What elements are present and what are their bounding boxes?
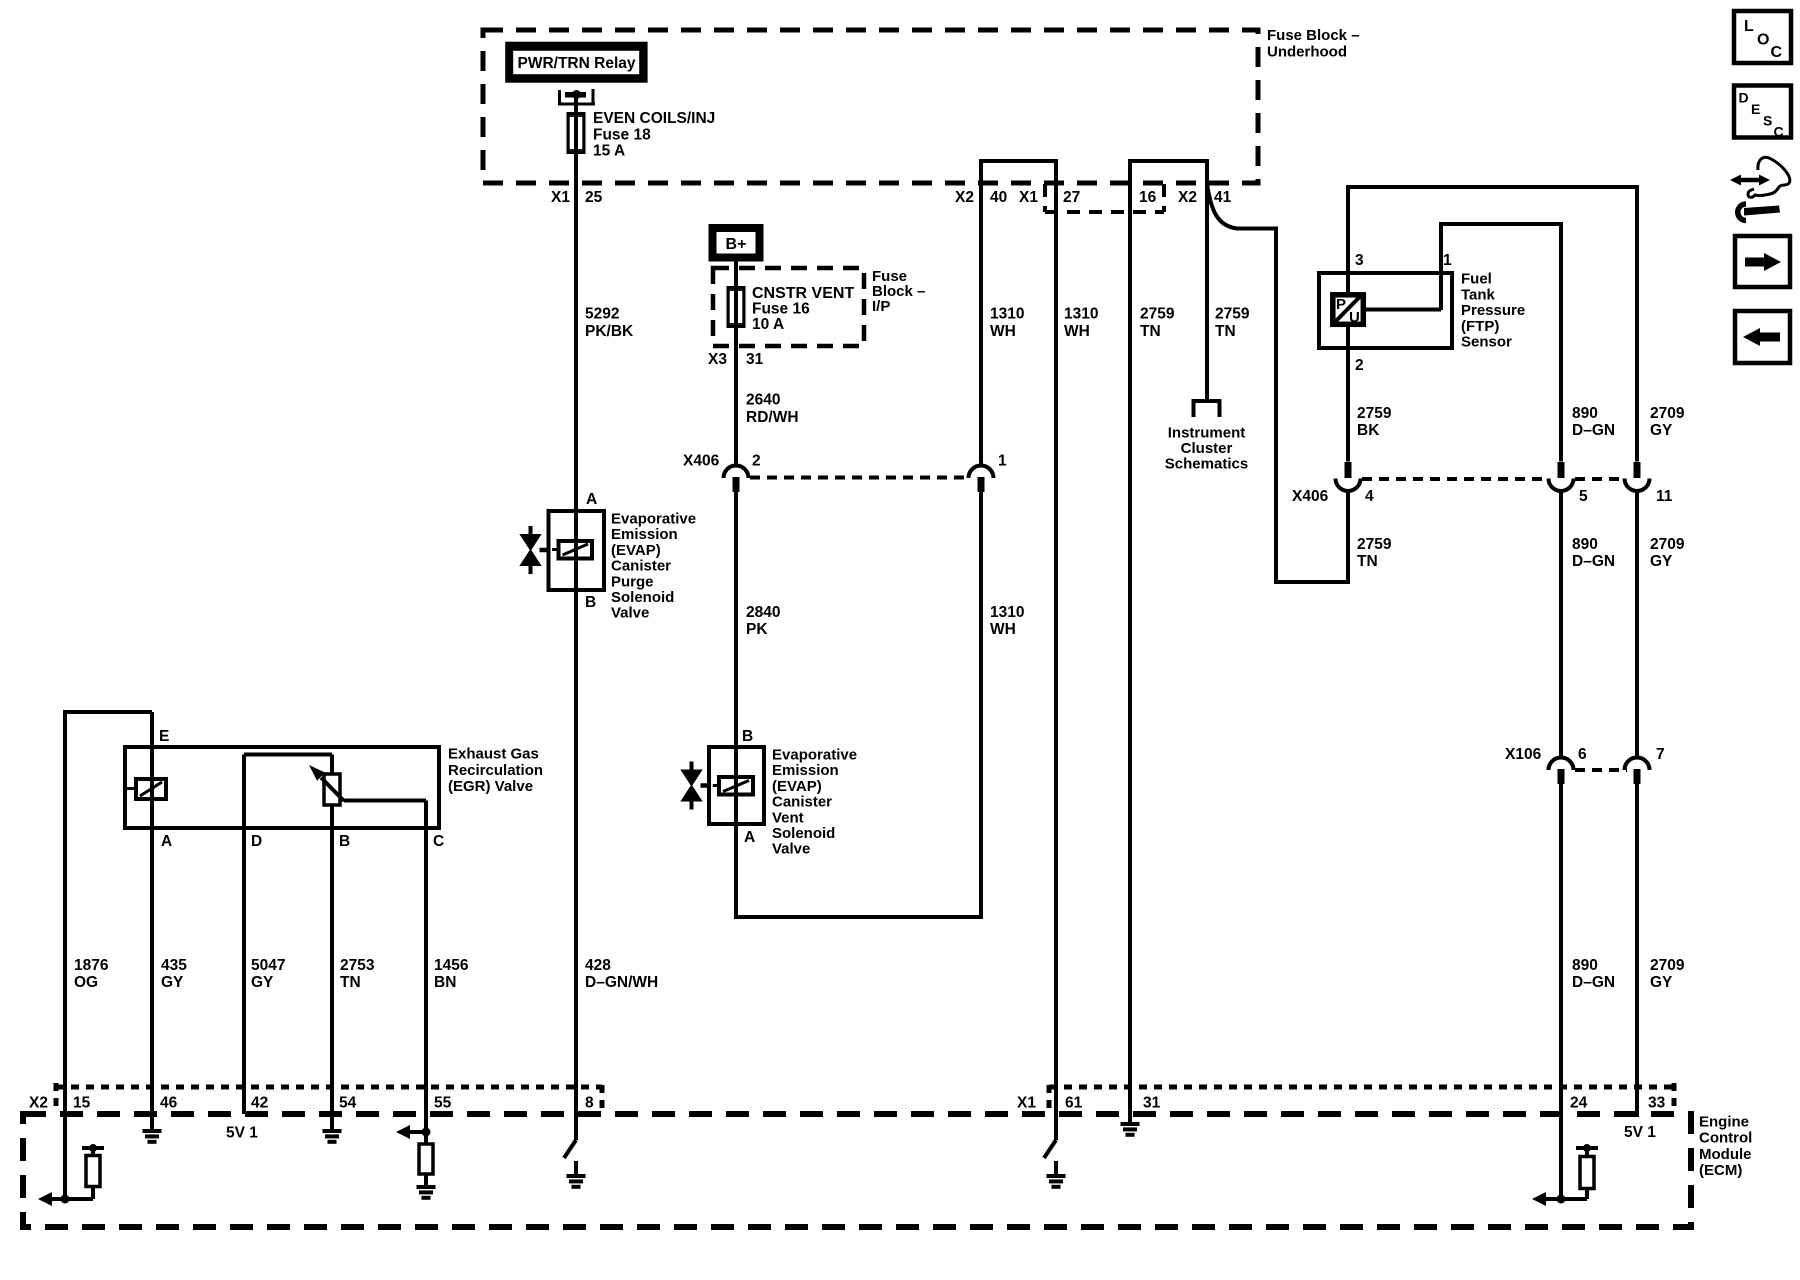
svg-text:890: 890 (1572, 536, 1598, 553)
svg-text:54: 54 (339, 1095, 357, 1112)
svg-text:X2: X2 (955, 189, 974, 206)
svg-text:10 A: 10 A (752, 316, 784, 333)
svg-text:C: C (1774, 124, 1784, 140)
svg-text:Schematics: Schematics (1165, 456, 1248, 473)
svg-text:1310: 1310 (990, 306, 1024, 323)
svg-text:Purge: Purge (611, 573, 654, 590)
svg-text:X406: X406 (683, 453, 720, 470)
svg-text:15: 15 (73, 1095, 91, 1112)
svg-text:31: 31 (746, 351, 764, 368)
svg-text:WH: WH (990, 323, 1016, 340)
svg-text:1876: 1876 (74, 957, 109, 974)
svg-text:33: 33 (1648, 1095, 1666, 1112)
svg-text:(EVAP): (EVAP) (611, 542, 661, 559)
svg-text:Tank: Tank (1461, 286, 1496, 303)
svg-text:PK: PK (746, 621, 768, 638)
svg-text:D–GN/WH: D–GN/WH (585, 974, 658, 991)
svg-text:Canister: Canister (611, 558, 671, 575)
svg-text:X1: X1 (551, 189, 570, 206)
svg-text:2: 2 (752, 453, 761, 470)
svg-text:S: S (1763, 113, 1772, 129)
svg-text:42: 42 (251, 1095, 268, 1112)
svg-text:Engine: Engine (1699, 1113, 1749, 1130)
svg-text:1310: 1310 (1064, 306, 1098, 323)
svg-text:55: 55 (434, 1095, 452, 1112)
svg-text:WH: WH (1064, 323, 1090, 340)
svg-text:2709: 2709 (1650, 957, 1685, 974)
svg-text:Evaporative: Evaporative (611, 511, 696, 528)
svg-text:D–GN: D–GN (1572, 422, 1615, 439)
svg-text:2759: 2759 (1140, 306, 1175, 323)
svg-text:Sensor: Sensor (1461, 334, 1512, 351)
svg-text:24: 24 (1570, 1095, 1588, 1112)
svg-text:41: 41 (1214, 189, 1232, 206)
svg-text:2759: 2759 (1357, 536, 1392, 553)
svg-text:TN: TN (1357, 553, 1378, 570)
svg-text:1: 1 (1443, 252, 1452, 269)
svg-text:D–GN: D–GN (1572, 974, 1615, 991)
svg-text:3: 3 (1355, 252, 1364, 269)
svg-text:Recirculation: Recirculation (448, 762, 543, 779)
svg-text:O: O (1757, 32, 1769, 49)
svg-text:5047: 5047 (251, 957, 285, 974)
svg-text:X1: X1 (1017, 1095, 1036, 1112)
svg-text:1310: 1310 (990, 604, 1024, 621)
svg-text:46: 46 (160, 1095, 178, 1112)
svg-text:U: U (1349, 309, 1360, 326)
svg-text:B: B (742, 728, 753, 745)
svg-text:GY: GY (1650, 553, 1673, 570)
svg-text:5V 1: 5V 1 (1624, 1124, 1656, 1141)
svg-text:Solenoid: Solenoid (772, 825, 835, 842)
svg-text:6: 6 (1578, 746, 1587, 763)
svg-text:Valve: Valve (772, 841, 810, 858)
svg-text:X2: X2 (29, 1095, 48, 1112)
svg-text:435: 435 (161, 957, 187, 974)
svg-text:X3: X3 (708, 351, 727, 368)
svg-text:WH: WH (990, 621, 1016, 638)
svg-text:C: C (433, 833, 444, 850)
svg-text:TN: TN (1215, 323, 1236, 340)
svg-text:C: C (1771, 44, 1783, 61)
svg-text:X2: X2 (1178, 189, 1197, 206)
svg-text:(ECM): (ECM) (1699, 1162, 1742, 1179)
svg-text:2709: 2709 (1650, 405, 1685, 422)
svg-text:GY: GY (1650, 974, 1673, 991)
svg-text:RD/WH: RD/WH (746, 409, 799, 426)
svg-text:Module: Module (1699, 1146, 1752, 1163)
svg-text:B+: B+ (726, 236, 747, 253)
svg-text:7: 7 (1656, 746, 1665, 763)
svg-text:Solenoid: Solenoid (611, 589, 674, 606)
svg-text:2: 2 (1355, 357, 1364, 374)
svg-text:A: A (586, 491, 597, 508)
svg-text:Underhood: Underhood (1267, 44, 1347, 61)
svg-text:(EVAP): (EVAP) (772, 778, 822, 795)
svg-text:2759: 2759 (1215, 306, 1250, 323)
svg-text:PWR/TRN Relay: PWR/TRN Relay (518, 55, 636, 72)
svg-text:Evaporative: Evaporative (772, 747, 857, 764)
svg-text:Instrument: Instrument (1168, 425, 1246, 442)
svg-text:E: E (159, 728, 169, 745)
svg-text:2640: 2640 (746, 392, 780, 409)
svg-text:Fuse 18: Fuse 18 (593, 126, 651, 143)
svg-text:CNSTR VENT: CNSTR VENT (752, 285, 854, 302)
svg-text:B: B (585, 594, 596, 611)
svg-text:OG: OG (74, 974, 98, 991)
svg-text:1: 1 (998, 453, 1007, 470)
svg-text:GY: GY (251, 974, 274, 991)
svg-text:8: 8 (585, 1095, 594, 1112)
svg-text:890: 890 (1572, 957, 1598, 974)
svg-text:BK: BK (1357, 422, 1380, 439)
svg-text:5292: 5292 (585, 306, 619, 323)
svg-text:X1: X1 (1019, 189, 1038, 206)
svg-text:25: 25 (585, 189, 603, 206)
svg-text:Fuse Block –: Fuse Block – (1267, 27, 1360, 44)
svg-text:P: P (1336, 296, 1346, 313)
svg-text:GY: GY (1650, 422, 1673, 439)
svg-text:Emission: Emission (772, 762, 839, 779)
svg-text:EVEN COILS/INJ: EVEN COILS/INJ (593, 110, 715, 127)
svg-text:2840: 2840 (746, 604, 780, 621)
svg-text:D–GN: D–GN (1572, 553, 1615, 570)
svg-text:11: 11 (1656, 488, 1673, 505)
svg-text:Valve: Valve (611, 605, 649, 622)
svg-text:(FTP): (FTP) (1461, 318, 1499, 335)
svg-text:PK/BK: PK/BK (585, 323, 634, 340)
svg-text:Pressure: Pressure (1461, 302, 1525, 319)
svg-text:X406: X406 (1292, 488, 1329, 505)
svg-text:428: 428 (585, 957, 611, 974)
svg-text:B: B (339, 833, 350, 850)
svg-text:D: D (1739, 90, 1749, 106)
svg-text:2753: 2753 (340, 957, 375, 974)
svg-text:Vent: Vent (772, 809, 804, 826)
svg-text:5V 1: 5V 1 (226, 1125, 258, 1142)
svg-text:890: 890 (1572, 405, 1598, 422)
svg-text:4: 4 (1365, 488, 1374, 505)
svg-text:D: D (251, 833, 262, 850)
svg-text:15 A: 15 A (593, 143, 625, 160)
svg-text:Cluster: Cluster (1181, 440, 1233, 457)
svg-text:X106: X106 (1505, 746, 1542, 763)
svg-text:1456: 1456 (434, 957, 469, 974)
svg-text:16: 16 (1139, 189, 1157, 206)
svg-text:Exhaust Gas: Exhaust Gas (448, 746, 539, 763)
svg-text:Emission: Emission (611, 526, 678, 543)
svg-text:BN: BN (434, 974, 456, 991)
svg-text:L: L (1744, 18, 1754, 35)
svg-text:Fuel: Fuel (1461, 271, 1492, 288)
svg-text:2759: 2759 (1357, 405, 1392, 422)
svg-text:TN: TN (1140, 323, 1161, 340)
svg-text:A: A (744, 829, 755, 846)
svg-text:Fuse 16: Fuse 16 (752, 301, 810, 318)
svg-text:40: 40 (990, 189, 1007, 206)
svg-text:Control: Control (1699, 1130, 1752, 1147)
svg-text:5: 5 (1579, 488, 1588, 505)
svg-text:E: E (1751, 101, 1760, 117)
svg-text:61: 61 (1065, 1095, 1083, 1112)
svg-text:(EGR) Valve: (EGR) Valve (448, 778, 533, 795)
svg-text:2709: 2709 (1650, 536, 1685, 553)
svg-text:31: 31 (1143, 1095, 1161, 1112)
svg-text:27: 27 (1063, 189, 1080, 206)
svg-text:Canister: Canister (772, 794, 832, 811)
svg-text:I/P: I/P (872, 298, 890, 315)
svg-text:A: A (161, 833, 172, 850)
svg-text:TN: TN (340, 974, 361, 991)
svg-text:GY: GY (161, 974, 184, 991)
